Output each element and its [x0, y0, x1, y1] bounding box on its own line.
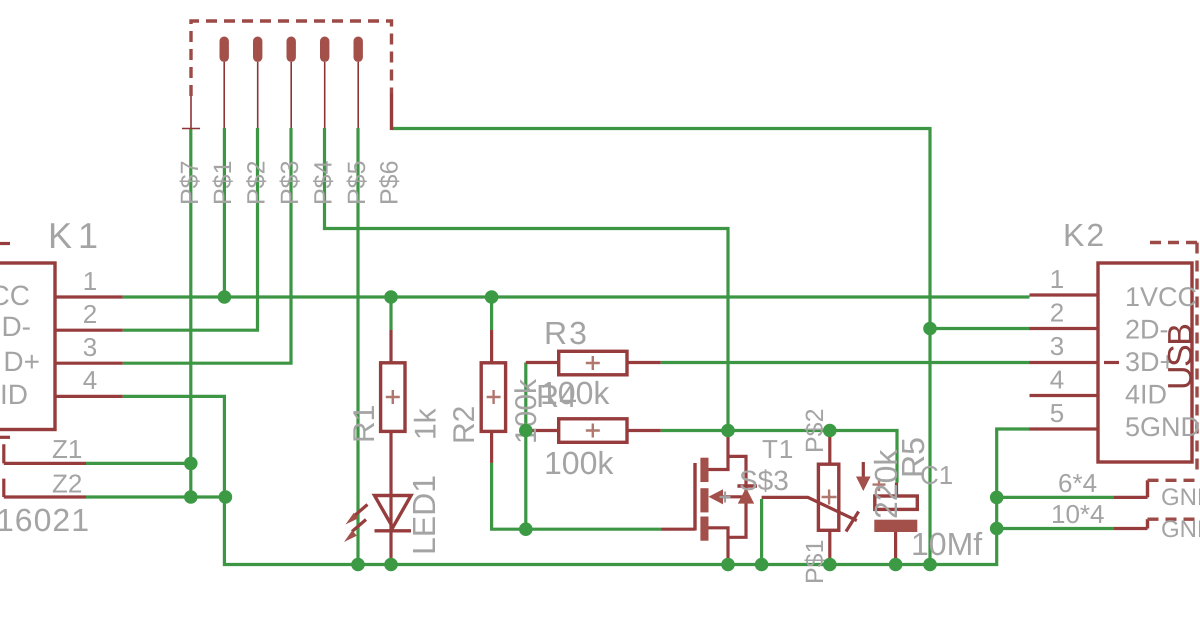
svg-text:LED1: LED1: [406, 475, 442, 555]
capacitor C1 plus mark: [873, 478, 886, 491]
capacitor C1 top plate: [875, 496, 918, 509]
svg-text:K2: K2: [1063, 217, 1106, 253]
pin K2.3: [1030, 361, 1099, 364]
stray clipped symbol mark below K1: [0, 436, 10, 439]
resistor R2 body: [481, 363, 505, 432]
junction 6*4: [990, 491, 1004, 505]
pad P$4: [320, 37, 329, 63]
pin stem P$7: [190, 96, 192, 129]
junction Z1: [184, 457, 198, 471]
pin stem P$5: [357, 62, 359, 128]
junction rail wiper: [755, 558, 769, 572]
pin stem P$2: [257, 62, 259, 128]
wire Z2 horizontal: [86, 495, 225, 498]
svg-text:P$7: P$7: [176, 161, 204, 205]
resistor R4 plus mark: [586, 424, 600, 438]
pin 10*4 lead: [1114, 527, 1148, 530]
trimmer R5 adjust arrowhead: [856, 477, 871, 492]
junction 10*4: [990, 522, 1004, 536]
junction K2.2: [923, 322, 937, 336]
junction T1 drain: [721, 424, 735, 438]
LED1 arrow 2: [344, 520, 366, 543]
transistor T1 body arrow shaft: [720, 495, 746, 498]
svg-text:10Mf: 10Mf: [911, 526, 982, 562]
transistor T1 body diode cathode bar: [737, 484, 757, 487]
svg-text:10*4: 10*4: [1051, 499, 1105, 529]
svg-text:K1: K1: [48, 215, 104, 256]
wire P$4 route to T1 drain: [325, 128, 729, 431]
junction R3/R4 left: [519, 424, 533, 438]
svg-text:P$2: P$2: [243, 161, 271, 205]
pin R1 bottom / LED1 lead: [389, 431, 392, 564]
pin stem P$4: [324, 62, 326, 128]
transistor T1 gate pin: [662, 528, 696, 531]
svg-text:4: 4: [83, 365, 97, 395]
svg-text:1VCC: 1VCC: [1125, 282, 1197, 312]
svg-text:USB: USB: [1162, 325, 1200, 390]
pad P$2: [253, 37, 262, 63]
pin stem P$1: [223, 62, 225, 128]
svg-text:1: 1: [83, 266, 97, 296]
pin R2 bottom: [490, 431, 493, 463]
svg-text:P$5: P$5: [343, 161, 371, 205]
pad P$5: [354, 37, 363, 63]
Z2 pin bracket: [4, 479, 86, 497]
pin 10*4 bracket: [1146, 519, 1149, 528]
wire R2 bottom to T1 gate: [492, 463, 662, 529]
junction rail LED1: [384, 558, 398, 572]
wire R3 left to R4 left to gate node: [524, 363, 527, 530]
transistor T1 source lead: [709, 528, 729, 565]
pin R3 left: [526, 361, 559, 364]
wire K2.2 stub: [930, 327, 1030, 330]
wire P$7 vertical to Z1 Z2: [189, 129, 192, 498]
svg-text:R4: R4: [536, 378, 577, 414]
svg-text:4: 4: [1050, 365, 1064, 395]
USB shield dashed outline top: [1150, 241, 1200, 244]
svg-text:16021: 16021: [0, 502, 90, 538]
junction rail C1 bottom: [889, 558, 903, 572]
wire Z1 horizontal: [86, 462, 191, 465]
wire K1.3 to P$3: [123, 128, 291, 363]
pin stem P$3: [290, 62, 292, 128]
junction pot top: [823, 424, 837, 438]
svg-text:P$1: P$1: [209, 161, 237, 205]
resistor R1 body: [381, 363, 405, 432]
svg-text:2: 2: [1050, 298, 1064, 328]
pin K1.2: [55, 329, 123, 332]
svg-text:T1: T1: [762, 434, 794, 464]
LED1 triangle: [375, 496, 412, 528]
svg-text:P$3: P$3: [276, 161, 304, 205]
svg-text:GND: GND: [1161, 516, 1200, 543]
svg-text:S$3: S$3: [739, 465, 789, 496]
pin K1.4: [55, 395, 123, 398]
transistor T1 source bar: [700, 517, 708, 541]
LED1 arrow 1: [346, 505, 368, 525]
pin header J1 dashed outline: [191, 21, 392, 96]
pin K2.2: [1030, 327, 1099, 330]
junction R2 top: [485, 290, 499, 304]
svg-text:ID: ID: [0, 379, 28, 410]
pin 6*4 lead: [1114, 496, 1148, 499]
wire K1.2 to P$2: [123, 128, 258, 330]
junction rail T1 source: [721, 558, 735, 572]
resistor R1 plus mark: [386, 390, 400, 404]
wire net VBUS horizontal K1.1 to K2.1: [123, 295, 1030, 298]
junction rail pot bottom: [823, 558, 837, 572]
connector K2 body: [1098, 263, 1192, 462]
pin K2.1: [1030, 293, 1099, 296]
junction R1 top: [384, 290, 398, 304]
svg-text:1k: 1k: [410, 407, 443, 440]
pin K2.4: [1030, 394, 1099, 397]
resistor R3 body: [559, 351, 627, 375]
connector K2 origin cross: [1104, 361, 1119, 364]
transistor T1 body arrowhead: [709, 489, 724, 504]
junction P$1/VBUS: [218, 290, 232, 304]
svg-text:2: 2: [83, 299, 97, 329]
svg-text:3: 3: [1050, 331, 1064, 361]
svg-text:5GND: 5GND: [1125, 412, 1200, 442]
svg-text:VCC: VCC: [0, 280, 30, 311]
svg-text:C1: C1: [920, 460, 953, 490]
pin 6*4 dashed shield line: [1148, 479, 1200, 482]
transistor T1 origin cross: [720, 492, 731, 503]
pin P$7 end tick: [182, 128, 200, 130]
junction rail P$5: [351, 558, 365, 572]
svg-text:GND: GND: [1161, 484, 1200, 511]
wire R1 top stub: [389, 297, 392, 330]
pin R4 right: [627, 429, 661, 432]
svg-text:1: 1: [1050, 264, 1064, 294]
trimmer R5 adjust arrow shaft: [862, 462, 865, 479]
pin 6*4 bracket: [1146, 480, 1149, 497]
capacitor C1 top lead: [895, 483, 898, 496]
resistor R4 body: [559, 419, 627, 443]
LED1 cathode bar: [375, 529, 412, 532]
pin K1.3: [55, 362, 123, 365]
pin K2.5: [1030, 427, 1099, 430]
svg-text:100k: 100k: [544, 445, 614, 481]
junction rail P$6 column: [923, 558, 937, 572]
resistor R2 plus mark: [487, 390, 501, 404]
pin pot bottom P$1: [828, 530, 831, 564]
potentiometer wiper end tick: [846, 512, 859, 532]
svg-text:5: 5: [1050, 398, 1064, 428]
transistor T1 gate line: [693, 463, 696, 531]
wire R4 right to C1 top: [661, 431, 897, 483]
connector K1 body: [0, 263, 55, 430]
transistor T1 drain bar: [700, 458, 708, 482]
wire P$6 route to K2.2 column: [392, 129, 931, 565]
wire 10*4 ground stub: [997, 527, 1114, 530]
resistor R3 plus mark: [586, 356, 600, 370]
wire R2 top stub: [490, 297, 493, 330]
wire 6*4 ground stub: [997, 496, 1114, 499]
svg-text:D+: D+: [3, 346, 40, 377]
transistor T1 body bar: [700, 488, 708, 512]
svg-text:Z1: Z1: [52, 434, 82, 464]
USB shield dashed outline right: [1195, 243, 1198, 475]
svg-text:P$6: P$6: [376, 161, 404, 205]
pad P$3: [287, 37, 296, 63]
junction Z2 left: [184, 490, 198, 504]
pin R2 top: [490, 330, 493, 363]
svg-text:R1: R1: [348, 405, 381, 443]
svg-text:P$4: P$4: [310, 160, 338, 205]
transistor T1 bulk loop: [728, 456, 746, 537]
pad P$1: [220, 37, 229, 63]
pin R1 top: [389, 330, 392, 363]
junction gate node: [519, 522, 533, 536]
pin 10*4 dashed shield line: [1148, 518, 1200, 521]
capacitor C1 bottom plate: [874, 520, 917, 532]
wire P$1 vertical to net VBUS: [223, 128, 226, 297]
potentiometer body: [818, 464, 838, 530]
wire pot wiper to ground rail: [760, 499, 763, 565]
svg-text:R2: R2: [448, 406, 481, 444]
wire R3 right to K2.3: [661, 361, 1030, 364]
svg-text:6*4: 6*4: [1058, 468, 1097, 498]
transistor T1 body diode triangle: [738, 488, 754, 504]
pin P$6 solid stub: [390, 94, 393, 131]
Z1 pin bracket: [4, 444, 86, 463]
svg-text:R3: R3: [544, 315, 589, 351]
wire P$5 vertical to ground rail: [356, 128, 359, 565]
pin K1.1: [55, 295, 123, 298]
potentiometer plus mark: [822, 490, 837, 505]
transistor T1 drain lead: [709, 431, 729, 470]
potentiometer wiper arm: [762, 497, 857, 520]
svg-text:Z2: Z2: [52, 469, 82, 499]
svg-text:3: 3: [83, 332, 97, 362]
svg-text:D-: D-: [1, 311, 31, 342]
capacitor C1 bottom lead: [894, 532, 897, 565]
wire K1.4 to Z2 node and ground rail: [123, 396, 1030, 564]
pin R3 right: [627, 361, 661, 364]
pin pot top P$2: [828, 431, 831, 465]
stray clipped symbol mark top left: [0, 242, 10, 245]
pin R4 left: [526, 429, 559, 432]
junction Z2 right: [219, 490, 233, 504]
